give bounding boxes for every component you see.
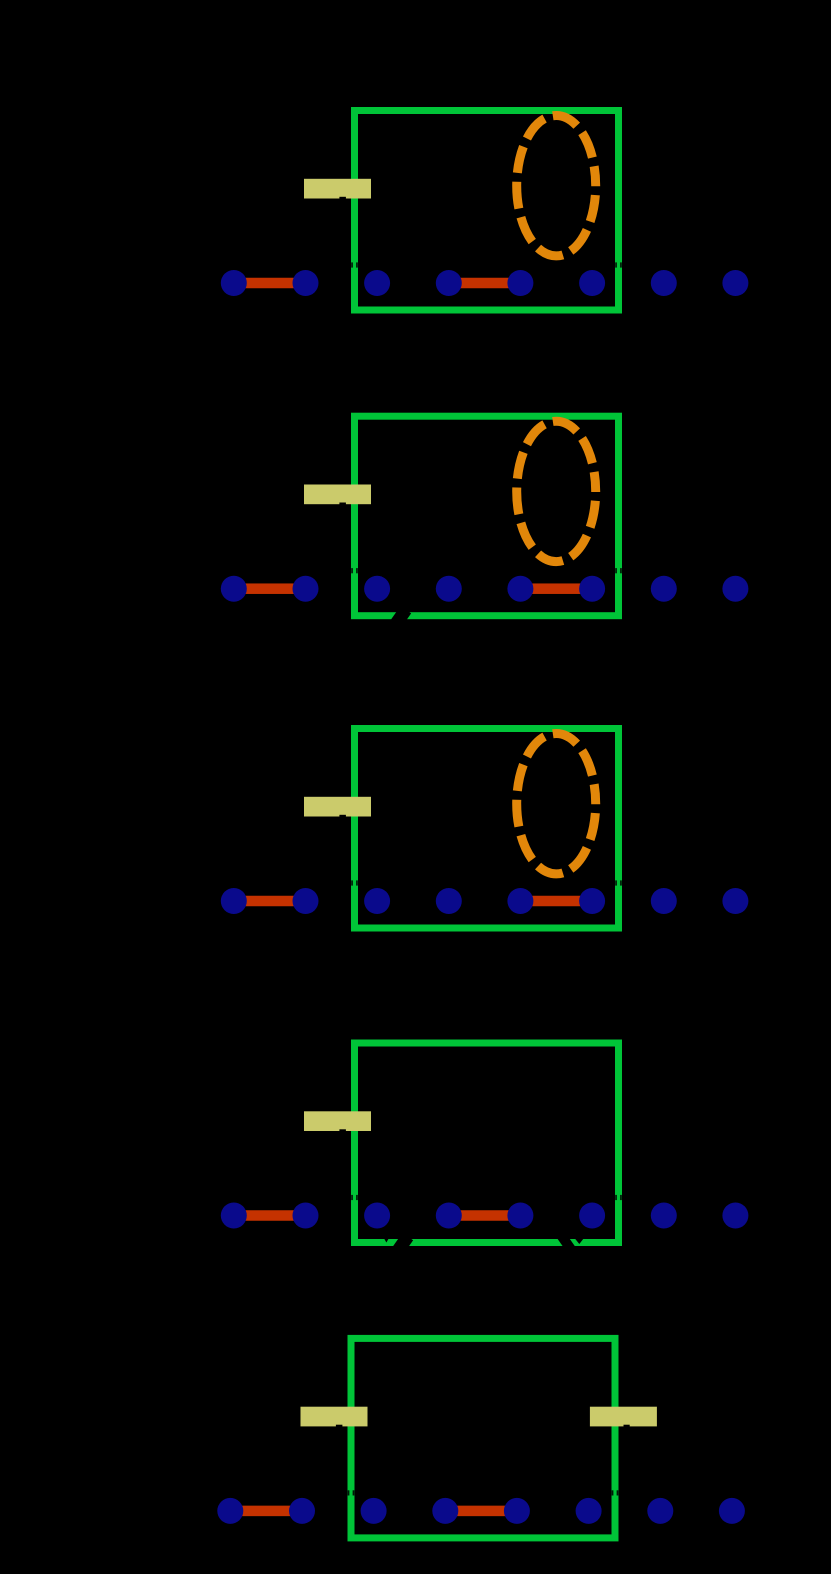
state dot s7 (diagram 4) bbox=[722, 1203, 748, 1229]
state dot s4 (diagram 4) bbox=[507, 1203, 533, 1229]
state dot s5 (diagram 4) bbox=[579, 1203, 605, 1229]
state dot s7 (diagram 3) bbox=[722, 888, 748, 914]
state dot s1 (diagram 1) bbox=[293, 270, 319, 296]
hidden line notch right outer (diagram 4) bbox=[620, 1195, 622, 1200]
patch tick mark (diagram 5) bbox=[336, 1425, 343, 1428]
option region box (diagram 3) bbox=[355, 729, 619, 929]
state dot s5 (diagram 1) bbox=[579, 270, 605, 296]
hidden line notch right outer (diagram 3) bbox=[620, 880, 622, 885]
edge s4-s5 (diagram 2) bbox=[520, 583, 592, 594]
hidden line notch left inner (diagram 5) bbox=[353, 1490, 355, 1495]
hidden arrow slash bottom-right (diagram 4) bbox=[555, 1230, 575, 1253]
state dot s5 (diagram 2) bbox=[579, 576, 605, 602]
hidden line notch right inner (diagram 5) bbox=[612, 1490, 614, 1495]
state dot s6 (diagram 2) bbox=[651, 576, 677, 602]
hidden arrow slash bottom (diagram 2) bbox=[388, 606, 411, 631]
hidden line notch left outer (diagram 4) bbox=[351, 1195, 353, 1200]
hidden line notch right outer (diagram 1) bbox=[620, 262, 622, 267]
state dot s7 (diagram 5) bbox=[719, 1498, 745, 1524]
edge s0-s1 (diagram 5) bbox=[230, 1506, 302, 1517]
option region box (diagram 2) bbox=[355, 416, 619, 616]
option region box (diagram 4) bbox=[355, 1043, 619, 1243]
termination patch right (diagram 5) bbox=[590, 1407, 657, 1427]
hidden line notch left outer (diagram 2) bbox=[351, 568, 353, 573]
hidden line notch left inner (diagram 2) bbox=[356, 568, 358, 573]
goal ellipse (diagram 2) bbox=[517, 421, 596, 561]
hidden line notch right inner (diagram 3) bbox=[615, 880, 617, 885]
state dot s0 (diagram 3) bbox=[221, 888, 247, 914]
state dot s3 (diagram 4) bbox=[436, 1203, 462, 1229]
state dot s4 (diagram 2) bbox=[507, 576, 533, 602]
hidden line notch left inner (diagram 1) bbox=[356, 262, 358, 267]
state dot s4 (diagram 1) bbox=[507, 270, 533, 296]
state dot s1 (diagram 2) bbox=[293, 576, 319, 602]
hidden line notch right outer (diagram 2) bbox=[620, 568, 622, 573]
state dot s7 (diagram 1) bbox=[722, 270, 748, 296]
state dot s0 (diagram 1) bbox=[221, 270, 247, 296]
goal ellipse (diagram 3) bbox=[517, 734, 596, 874]
state dot s6 (diagram 1) bbox=[651, 270, 677, 296]
hidden line notch right inner (diagram 1) bbox=[615, 262, 617, 267]
state dot s3 (diagram 2) bbox=[436, 576, 462, 602]
initiation patch left (diagram 4) bbox=[304, 1111, 371, 1131]
state dot s0 (diagram 2) bbox=[221, 576, 247, 602]
patch tick mark (diagram 1) bbox=[339, 197, 346, 200]
state dot s3 (diagram 5) bbox=[432, 1498, 458, 1524]
goal ellipse (diagram 1) bbox=[517, 116, 596, 256]
state dot s2 (diagram 3) bbox=[364, 888, 390, 914]
state dot s5 (diagram 3) bbox=[579, 888, 605, 914]
edge s3-s4 (diagram 1) bbox=[449, 278, 521, 289]
hidden arrow notch v (diagram 4) bbox=[384, 1238, 389, 1243]
hidden line notch right inner (diagram 4) bbox=[615, 1195, 617, 1200]
state dot s6 (diagram 5) bbox=[647, 1498, 673, 1524]
patch tick mark (diagram 2) bbox=[339, 503, 346, 506]
state dot s2 (diagram 2) bbox=[364, 576, 390, 602]
state dot s4 (diagram 5) bbox=[504, 1498, 530, 1524]
state dot s5 (diagram 5) bbox=[576, 1498, 602, 1524]
state dot s1 (diagram 4) bbox=[293, 1203, 319, 1229]
edge s0-s1 (diagram 4) bbox=[234, 1210, 306, 1221]
state dot s0 (diagram 5) bbox=[217, 1498, 243, 1524]
edge s4-s5 (diagram 3) bbox=[520, 896, 592, 907]
state dot s2 (diagram 4) bbox=[364, 1203, 390, 1229]
initiation patch left (diagram 5) bbox=[301, 1407, 368, 1427]
state dot s1 (diagram 3) bbox=[293, 888, 319, 914]
state dot s7 (diagram 2) bbox=[722, 576, 748, 602]
state dot s2 (diagram 1) bbox=[364, 270, 390, 296]
state dot s4 (diagram 3) bbox=[507, 888, 533, 914]
state dot s0 (diagram 4) bbox=[221, 1203, 247, 1229]
state dot s1 (diagram 5) bbox=[289, 1498, 315, 1524]
hidden line notch left outer (diagram 3) bbox=[351, 880, 353, 885]
edge s3-s4 (diagram 4) bbox=[449, 1210, 521, 1221]
state dot s3 (diagram 3) bbox=[436, 888, 462, 914]
hidden line notch left outer (diagram 5) bbox=[348, 1490, 350, 1495]
patch tick mark (diagram 4) bbox=[339, 1129, 346, 1132]
initiation patch left (diagram 1) bbox=[304, 179, 371, 199]
state dot s2 (diagram 5) bbox=[361, 1498, 387, 1524]
hidden line notch left inner (diagram 4) bbox=[356, 1195, 358, 1200]
option region box (diagram 1) bbox=[355, 111, 619, 311]
patch tick mark (diagram 3) bbox=[339, 815, 346, 818]
edge s0-s1 (diagram 2) bbox=[234, 583, 306, 594]
option region box (diagram 5) bbox=[351, 1338, 615, 1538]
hidden line notch left inner (diagram 3) bbox=[356, 880, 358, 885]
edge s3-s4 (diagram 5) bbox=[445, 1506, 517, 1517]
edge s0-s1 (diagram 3) bbox=[234, 896, 306, 907]
edge s0-s1 (diagram 1) bbox=[234, 278, 306, 289]
initiation patch left (diagram 2) bbox=[304, 485, 371, 505]
hidden arrow notch v right (diagram 4) bbox=[574, 1238, 584, 1244]
right patch tick mark (diagram 5) bbox=[624, 1425, 630, 1428]
state dot s3 (diagram 1) bbox=[436, 270, 462, 296]
hidden line notch right inner (diagram 2) bbox=[615, 568, 617, 573]
state dot s6 (diagram 3) bbox=[651, 888, 677, 914]
hidden line notch left outer (diagram 1) bbox=[351, 262, 353, 267]
hidden arrow slash bottom-left (diagram 4) bbox=[390, 1233, 413, 1258]
initiation patch left (diagram 3) bbox=[304, 797, 371, 817]
hidden line notch right outer (diagram 5) bbox=[617, 1490, 619, 1495]
state dot s6 (diagram 4) bbox=[651, 1203, 677, 1229]
